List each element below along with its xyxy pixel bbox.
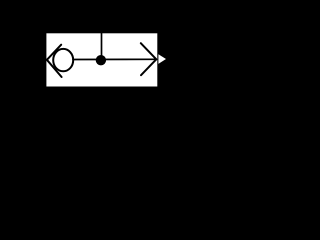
wire: right arrow lower barb (141, 59, 156, 75)
node: junction dot (97, 56, 106, 65)
wire: left arrow upper barb (47, 45, 61, 60)
wire: vertical branch from top edge to junction (101, 33, 103, 60)
white schematic panel (46, 33, 157, 86)
right arrowhead triangle (158, 54, 166, 64)
check-valve circle (53, 49, 73, 71)
wire: right arrow upper barb (141, 43, 157, 59)
wire: horizontal net from circle to right arrow (73, 58, 156, 60)
wire: left arrow lower barb (47, 60, 62, 77)
